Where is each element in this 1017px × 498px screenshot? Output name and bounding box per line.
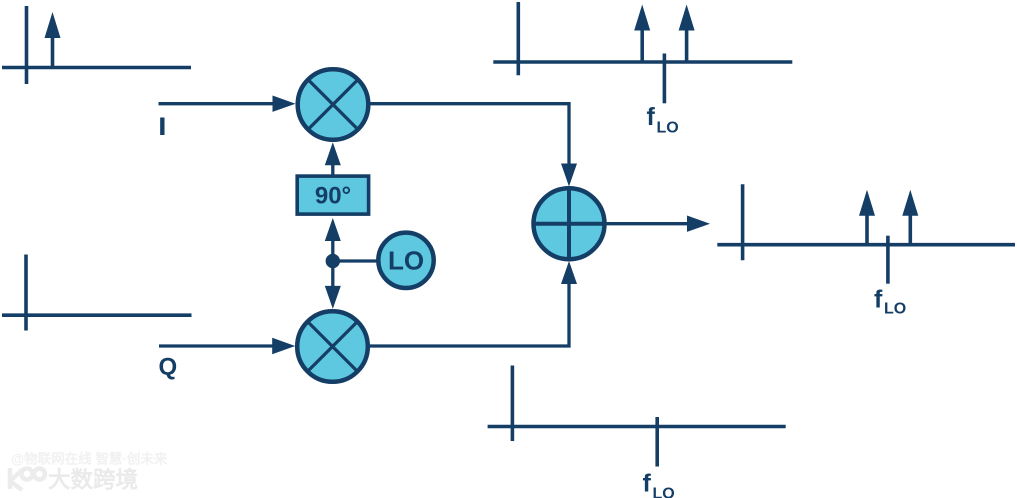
wire I input: [159, 96, 296, 112]
spectrum S4 label fLO: [643, 470, 675, 498]
spectrum S5 (right output) vertical tick: [741, 184, 745, 260]
node label Q: [159, 354, 178, 381]
spectrum S5 impulse arrow upper sideband: [902, 190, 918, 245]
mixer M1 (I mixer): [298, 69, 369, 140]
spectrum S3 impulse arrow lower sideband: [634, 5, 650, 63]
watermark logo: [10, 468, 45, 490]
spectrum S5 label fLO: [874, 286, 906, 318]
watermark line 1: [11, 451, 168, 467]
spectrum S3 label fLO: [647, 103, 679, 137]
mixer M2 (Q mixer): [297, 311, 368, 382]
svg-text:大数跨境: 大数跨境: [48, 467, 138, 493]
svg-text:f: f: [643, 470, 652, 498]
svg-text:LO: LO: [884, 301, 906, 318]
svg-text:f: f: [874, 286, 883, 314]
spectrum S5 impulse arrow lower sideband: [859, 190, 875, 245]
spectrum S1 (top-left input I) vertical axis: [25, 6, 29, 84]
arrow 90 box to mixer M1: [325, 142, 341, 176]
oscillator LO: [378, 233, 433, 288]
svg-text:LO: LO: [657, 120, 679, 137]
summer U1: [533, 187, 606, 260]
spectrum S1 horizontal axis: [2, 66, 191, 70]
wire summer output: [604, 216, 710, 232]
junction node LO: [326, 254, 340, 268]
phase shifter 90 degrees box: [297, 176, 368, 214]
spectrum S2 (bottom-left input Q) vertical axis: [24, 255, 28, 331]
svg-text:f: f: [647, 103, 656, 131]
svg-text:LO: LO: [388, 246, 424, 276]
spectrum S3 fLO marker: [663, 54, 667, 104]
svg-text:LO: LO: [653, 486, 675, 498]
spectrum S3 horizontal axis: [493, 60, 792, 64]
spectrum S2 horizontal axis: [2, 313, 192, 317]
spectrum S5 fLO marker: [886, 236, 890, 284]
arrow junction to 90 box: [325, 218, 341, 261]
svg-text:Q: Q: [159, 354, 178, 381]
node label I: [159, 114, 166, 141]
spectrum S4 (bottom-middle RF Q) vertical tick: [511, 366, 515, 442]
wire M1 output to summer: [369, 104, 578, 187]
spectrum S5 horizontal axis: [717, 243, 1015, 247]
spectrum S1 impulse arrow: [45, 12, 61, 68]
arrow junction to mixer M2: [325, 261, 341, 309]
wire Q input: [159, 338, 295, 354]
spectrum S4 horizontal axis: [488, 425, 786, 429]
svg-text:I: I: [159, 114, 166, 141]
spectrum S3 (top-middle RF I) vertical tick: [516, 2, 520, 75]
spectrum S4 fLO marker: [655, 417, 659, 467]
wire junction to LO oscillator: [333, 259, 377, 262]
wire M2 output to summer: [368, 261, 577, 346]
svg-text:90°: 90°: [315, 183, 351, 210]
spectrum S3 impulse arrow upper sideband: [679, 5, 695, 63]
watermark line 2: [48, 467, 138, 493]
svg-text:@物联网在线 智慧·创未来: @物联网在线 智慧·创未来: [11, 451, 168, 467]
